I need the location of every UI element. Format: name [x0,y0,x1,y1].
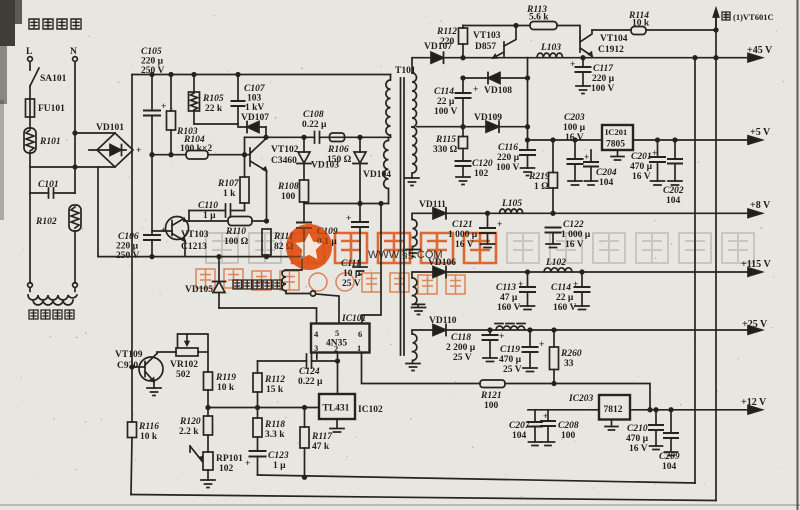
svg-text:220 µ: 220 µ [116,242,139,252]
svg-text:VT103: VT103 [181,230,209,240]
winding secondary +115 [413,278,417,304]
arrow output +8V [748,200,771,218]
svg-text:5: 5 [335,328,339,338]
winding primary [386,75,391,138]
node terminal [310,291,315,296]
ground [521,168,535,176]
transformer T101 [384,66,426,371]
svg-text:1: 1 [357,343,361,353]
svg-text:+: + [543,412,548,422]
svg-text:VD105: VD105 [185,285,213,295]
capacitor C101 [30,180,75,198]
svg-text:3: 3 [314,343,318,353]
node L terminal [26,47,32,61]
svg-text:R106: R106 [327,145,349,155]
svg-text:C118: C118 [451,333,471,343]
wire +8V rail [412,213,750,219]
svg-text:220 µ: 220 µ [592,74,615,84]
winding secondary +8 [413,220,418,250]
ground [665,452,678,456]
svg-text:1 kV: 1 kV [245,103,264,113]
node junction [302,136,306,140]
svg-text:160 V: 160 V [497,303,520,313]
wire to bridge top [75,132,115,134]
svg-text:C1213: C1213 [181,242,207,252]
capacitor C201 [630,140,665,182]
wire bridge minus drop [97,167,99,257]
svg-text:C202: C202 [663,186,684,196]
wire sense rail [208,407,319,409]
svg-text:100: 100 [561,431,576,441]
wire right vertical B [715,16,717,501]
resistor R102 [35,205,81,231]
wire [131,438,132,495]
arrow output +5V [748,127,771,144]
svg-text:160 V: 160 V [553,303,576,313]
svg-text:1 µ: 1 µ [203,211,216,221]
svg-text:R107: R107 [217,179,240,189]
svg-text:100: 100 [281,192,296,202]
svg-text:VD111: VD111 [419,200,446,210]
wire VD109 line [417,126,528,128]
svg-text:104: 104 [599,178,614,188]
node junction [150,73,154,77]
svg-text:VD108: VD108 [484,86,512,96]
capacitor C105 [141,47,166,155]
svg-text:C108: C108 [303,110,324,120]
ground [575,306,589,310]
node junction [358,136,362,140]
svg-text:C1912: C1912 [598,45,624,55]
svg-text:25 V: 25 V [503,365,522,375]
node junction [552,328,556,332]
wire [29,193,31,283]
svg-text:R119: R119 [215,373,236,383]
svg-text:5.6 k: 5.6 k [529,13,549,23]
svg-text:R120: R120 [179,417,201,427]
resistor R104 [152,135,250,159]
node junction [526,270,530,274]
capacitor C108 [302,110,327,143]
svg-text:R260: R260 [560,349,582,359]
node junction [551,138,555,142]
node junction [192,73,196,77]
shunt regulator IC102 TL431 [319,394,383,432]
resistor R121 [480,380,505,411]
svg-text:47 k: 47 k [312,442,330,452]
node junction [526,125,530,129]
diode VD103 [297,137,339,170]
label 行变压器来 from flyback [233,280,282,289]
node junction [264,136,268,140]
svg-text:7812: 7812 [604,405,623,415]
svg-text:C114: C114 [434,87,454,97]
svg-text:10 k: 10 k [140,432,158,442]
wire pin3 stub [316,353,318,360]
svg-text:3.3 k: 3.3 k [265,430,285,440]
svg-text:+5 V: +5 V [750,127,771,138]
capacitor C111 [341,204,368,290]
node junction [580,270,584,274]
transformer core [401,78,405,355]
svg-text:4: 4 [314,329,319,339]
svg-text:0.22 µ: 0.22 µ [302,120,327,130]
ground [481,244,495,248]
capacitor C120 [456,159,493,179]
svg-text:R105: R105 [202,94,224,104]
optocoupler IC101 [311,314,370,354]
diode VD105 [185,257,226,308]
wire L lead [29,61,31,70]
capacitor C122 [546,220,591,250]
diode VD108 [484,73,512,97]
node junction [486,212,490,216]
node junction [169,73,173,77]
svg-text:470 µ: 470 µ [626,434,649,444]
wire collector line [245,136,391,138]
wire to IC101 pin4 [219,308,317,324]
node junction [654,408,658,412]
svg-text:R110: R110 [225,227,246,237]
capacitor C202 [663,140,684,206]
node junction [528,328,532,332]
wire +45 rectifier line [412,58,431,73]
svg-text:330 Ω: 330 Ω [433,145,458,155]
svg-text:R108: R108 [277,182,299,192]
wire aux vertical [527,58,529,149]
wire [29,153,31,193]
arrow output +115V [741,259,771,276]
resistor R106 [327,133,352,165]
capacitor C207 [509,410,542,442]
capacitor C124 [258,354,338,387]
watermark row1 gray chars [206,233,281,263]
winding secondary +25 [413,334,417,363]
resistor R120 [179,408,213,453]
svg-text:VT104: VT104 [600,34,628,44]
resistor R107 [217,137,249,210]
transistor VT109 [115,350,163,388]
inductor L104 dashed [495,324,525,331]
svg-text:22 k: 22 k [205,104,223,114]
node junction [256,406,260,410]
wire +12V rail [528,409,750,411]
svg-text:16 V: 16 V [632,172,651,182]
ground [542,442,555,446]
svg-text:+: + [245,459,250,469]
svg-text:C920: C920 [117,361,138,371]
wire +5V rail [528,139,751,141]
wire base line [463,26,580,39]
diode VD110 [429,316,457,336]
svg-text:220 µ: 220 µ [497,153,520,163]
svg-text:C201: C201 [631,152,652,162]
svg-text:103: 103 [247,94,262,104]
inductor L103 [537,43,563,58]
ground [651,181,665,185]
svg-text:C124: C124 [299,367,320,377]
svg-text:25 V: 25 V [342,279,361,289]
svg-text:16 V: 16 V [565,240,584,250]
svg-text:+: + [136,146,141,156]
svg-text:100 V: 100 V [591,84,614,94]
resistor R101 [24,128,61,153]
svg-text:+: + [473,85,478,95]
svg-text:22 µ: 22 µ [437,97,455,107]
winding aux [384,137,389,203]
svg-text:C3460: C3460 [271,156,297,166]
svg-text:2 200 µ: 2 200 µ [446,343,476,353]
svg-text:C203: C203 [564,113,585,123]
svg-text:C204: C204 [596,168,617,178]
ground [406,364,420,371]
svg-text:VD103: VD103 [311,161,339,171]
node junction [693,56,697,60]
svg-text:100 V: 100 V [434,107,457,117]
node junction [243,153,247,157]
svg-text:D857: D857 [475,42,496,52]
svg-text:L102: L102 [545,258,566,268]
svg-text:C114: C114 [551,283,571,293]
wire emitter rail [98,256,304,258]
svg-text:33: 33 [564,359,574,369]
svg-text:C107: C107 [244,84,266,94]
regulator IC203 7812 [568,394,630,430]
node junction [461,76,465,80]
svg-text:+: + [497,220,502,230]
svg-text:+: + [573,280,578,290]
svg-text:R112: R112 [436,27,457,37]
wire VD108 line [463,77,528,79]
svg-text:25 V: 25 V [453,353,472,363]
svg-text:1 k: 1 k [223,189,236,199]
diode VD109 [474,113,502,132]
svg-text:4N35: 4N35 [326,339,347,349]
capacitor C204 [584,150,617,188]
svg-text:470 µ: 470 µ [499,355,522,365]
svg-text:+8 V: +8 V [750,200,771,211]
ground [412,304,426,314]
resistor R108 [277,164,309,223]
node junction [236,73,240,77]
node junction [669,408,673,412]
resistor R116 [128,422,160,442]
watermark stamp overlay [286,224,332,270]
svg-text:+: + [652,149,657,159]
svg-text:IC101: IC101 [341,314,366,324]
svg-text:VD107: VD107 [241,113,269,123]
node junction [130,365,134,369]
svg-text:502: 502 [176,370,191,380]
svg-text:+25 V: +25 V [742,319,768,330]
ground [546,244,560,248]
transistor VT102 [250,137,299,221]
resistor R112 base [436,26,468,58]
svg-text:C105: C105 [141,47,162,57]
svg-text:SA101: SA101 [40,74,67,84]
svg-text:N: N [70,47,77,57]
wire top rail [132,74,391,76]
watermark row1 orange chars [292,233,496,263]
svg-text:+: + [161,102,166,112]
node junction [461,56,465,60]
resistor R113 [526,5,557,30]
svg-text:R101: R101 [39,137,61,147]
svg-text:FU101: FU101 [38,104,65,114]
svg-text:C110: C110 [198,201,218,211]
ground [456,177,470,185]
ground [576,86,590,94]
svg-text:C109: C109 [317,227,338,237]
svg-text:+: + [518,280,523,290]
capacitor C116 [496,143,535,173]
svg-text:C117: C117 [593,64,614,74]
diode VD111 [419,200,446,219]
node junction [673,138,677,142]
inductor flyback winding [282,257,309,294]
resistor R260 [550,330,582,384]
node junction [551,212,555,216]
svg-text:1 000 µ: 1 000 µ [561,230,591,240]
wire [265,127,267,137]
svg-text:VD101: VD101 [96,123,124,133]
regulator IC201 7805 [602,125,633,160]
resistor R117 [300,408,333,478]
svg-text:TL431: TL431 [323,404,350,414]
svg-text:VD109: VD109 [474,113,502,123]
svg-text:C106: C106 [118,232,139,242]
svg-text:IC102: IC102 [358,405,383,415]
svg-text:+12 V: +12 V [741,397,767,408]
svg-text:C209: C209 [659,452,680,462]
svg-text:C119: C119 [500,345,520,355]
ground [406,250,420,257]
transistor VT103 D857 [473,26,516,59]
resistor R105 [189,75,224,125]
capacitor C117 [570,58,615,94]
inductor L102 [544,258,572,272]
svg-text:R102: R102 [35,217,57,227]
ground [529,442,542,446]
svg-text:1 000 µ: 1 000 µ [448,230,478,240]
capacitor C209 [659,410,680,472]
node junction [206,406,210,410]
ground [405,178,419,186]
resistor R111 [262,229,294,257]
ground [585,181,598,185]
wire +115V rail [412,272,750,278]
svg-text:(1)VT601C: (1)VT601C [733,12,774,22]
node junction [461,125,465,129]
wire N down [74,61,76,193]
wire bottom AC [30,166,115,168]
watermark row2 [196,269,465,294]
svg-text:10 k: 10 k [632,19,650,29]
svg-text:R111: R111 [273,232,294,242]
svg-text:470 µ: 470 µ [630,162,653,172]
svg-text:+: + [346,214,351,224]
fuse FU101 [26,99,66,117]
svg-text:+: + [539,340,544,350]
svg-text:82 Ω: 82 Ω [274,242,294,252]
capacitor C123 [245,451,289,475]
node junction [73,131,77,135]
svg-text:C101: C101 [38,180,59,190]
arrow output +25V [742,319,768,334]
svg-text:2.2 k: 2.2 k [179,427,199,437]
wire pin2 to TL431 [337,353,339,395]
wire collector to pot [157,352,176,354]
svg-text:6: 6 [358,329,362,339]
svg-text:VD106: VD106 [428,258,456,268]
capacitor C210 [626,410,663,454]
watermark row1 light gray chars [507,233,754,263]
wire right vertical A [694,58,696,483]
winding secondary top [412,73,417,127]
svg-text:102: 102 [219,464,234,474]
resistor R103 [167,75,198,155]
svg-text:102: 102 [474,169,489,179]
svg-text:IC203: IC203 [568,394,594,404]
svg-text:C120: C120 [472,159,493,169]
wire [29,117,31,128]
svg-text:IC201: IC201 [605,127,627,137]
ground [668,181,682,185]
diode VD107 [238,113,269,133]
svg-text:7805: 7805 [606,140,625,150]
diode VD104 [353,137,391,203]
node junction [573,138,577,142]
svg-text:VR102: VR102 [170,360,198,370]
node junction [73,165,77,169]
svg-text:104: 104 [662,462,677,472]
svg-text:C210: C210 [627,424,648,434]
watermark stamp [286,224,332,270]
capacitor C109 [297,223,338,257]
node junction [303,406,307,410]
svg-text:R121: R121 [480,391,502,401]
capacitor C107 [232,75,266,125]
svg-text:100 k×2: 100 k×2 [180,144,212,154]
svg-text:+45 V: +45 V [747,45,773,56]
node junction [265,219,269,223]
svg-text:C123: C123 [268,451,289,461]
wire to VT601 arrow up [713,9,718,31]
ground [521,306,535,310]
svg-text:C208: C208 [558,421,579,431]
diode VD106 [428,258,456,278]
svg-text:VT102: VT102 [271,145,299,155]
capacitor C121 [448,213,502,250]
inductor L105 [500,199,523,213]
svg-text:0.1 µ: 0.1 µ [317,237,337,247]
node junction [526,138,530,142]
wire pin5 [316,294,339,324]
ground [568,181,582,185]
node junction [581,56,585,60]
node junction [552,382,556,386]
svg-text:220: 220 [440,37,455,47]
svg-text:C122: C122 [563,220,584,230]
resistor R119 [204,372,237,408]
arrow output +45V [747,45,773,62]
svg-text:15 k: 15 k [266,385,284,395]
node junction [217,255,221,259]
ground [147,388,161,396]
capacitor C118 [446,330,504,363]
svg-text:L105: L105 [501,199,522,209]
arrow output +12V [741,397,767,414]
